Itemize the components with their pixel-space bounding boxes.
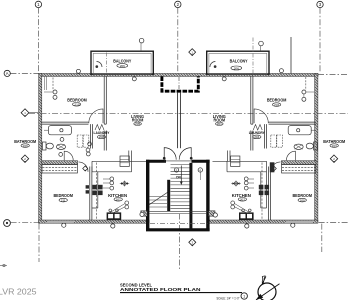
wall bedroom1 bottom (42, 122, 89, 124)
balcony right label (230, 58, 248, 70)
title text (120, 282, 201, 292)
keynote diamond hall right (271, 166, 276, 171)
fan symbol kitchen right (231, 181, 240, 187)
stove right (259, 185, 269, 195)
keynote circle stair left wall (140, 212, 144, 216)
bedroom2 left label (53, 193, 73, 202)
kitchen/bedroom2 wall right (268, 167, 270, 221)
svg-text:207: 207 (240, 198, 245, 202)
svg-text:200: 200 (300, 198, 305, 202)
dishwasher leader left (110, 201, 129, 214)
svg-text:204: 204 (254, 135, 259, 139)
closet box right (282, 165, 316, 174)
living room left label (131, 114, 144, 126)
closet dashed line bedroom1 right (305, 77, 307, 90)
sink right (294, 144, 303, 149)
svg-text:SCALE: 1/4" = 1'-0": SCALE: 1/4" = 1'-0" (217, 296, 240, 300)
balcony left label (113, 59, 131, 68)
bedroom2 right door arc (271, 162, 281, 172)
down arrow (180, 166, 183, 186)
outlet circles bedroom1 left wall (44, 90, 57, 99)
wall bathroom/laundry vertical (91, 124, 93, 148)
bedroom1 right door arc (254, 109, 268, 123)
stair break line diagonal (149, 191, 170, 205)
toilet left (42, 142, 53, 150)
svg-text:209: 209 (23, 144, 28, 148)
keynote circles below bottom wall right (245, 223, 295, 228)
wall bedroom1 right vertical left unit (104, 76, 106, 124)
keynote circles bathroom left (59, 138, 92, 157)
bedroom1 closet dashed line (52, 78, 54, 91)
exterior wall bottom right run (209, 220, 318, 223)
outlet circle top wall left unit (76, 69, 80, 73)
svg-text:DN: DN (176, 175, 181, 179)
linen dashed boxes right (271, 135, 283, 147)
svg-text:206: 206 (234, 66, 239, 70)
bedroom1 door arc (89, 109, 103, 123)
svg-text:BALCONY: BALCONY (113, 59, 131, 64)
kitchen left label (108, 193, 127, 202)
svg-text:202: 202 (274, 103, 279, 107)
svg-text:208: 208 (99, 135, 104, 139)
keynote diamond right bathroom (330, 155, 337, 163)
keynote circle above right balcony (259, 41, 264, 51)
fan symbol kitchen left (120, 181, 129, 187)
exterior wall right (315, 74, 318, 223)
left margin tick (0, 264, 7, 266)
bedroom2 left door arc (79, 162, 89, 172)
keynote circle stair right (198, 168, 202, 180)
window bottom wall left bedroom2 (47, 220, 74, 223)
svg-text:201: 201 (217, 122, 222, 126)
keynote circles below bottom wall left (62, 223, 115, 228)
stair lower landing dash-dot (150, 222, 208, 224)
bathroom left door arc (64, 151, 73, 160)
svg-text:206: 206 (120, 64, 125, 68)
svg-text:205: 205 (135, 122, 140, 126)
stove left (92, 185, 102, 195)
laundry left label (94, 130, 110, 139)
keynote diamond left bathroom (21, 155, 28, 163)
party wall double line (178, 93, 181, 149)
stair stringer left dark bar (167, 180, 170, 212)
grid line 2 vertical dash-dot (178, 8, 180, 270)
keynote circles kitchen right column (244, 177, 254, 190)
balcony left (91, 51, 153, 74)
wall bedroom1 right vertical (251, 76, 253, 124)
keynote diamond left on centerline (21, 109, 38, 117)
keynote circle stair left (174, 168, 178, 173)
wall bathroom/laundry vertical right unit (265, 124, 267, 148)
grid marker circle 3 (317, 1, 323, 7)
kitchen left counters (92, 151, 146, 220)
svg-text:LVR 2025: LVR 2025 (0, 287, 37, 296)
roof line above wall right (290, 37, 292, 74)
kitchen right label (232, 193, 251, 202)
svg-text:211: 211 (61, 198, 66, 202)
keynote circles kitchen left column (103, 177, 114, 190)
grid marker circle A (4, 70, 10, 76)
grid marker circle 1 (35, 1, 41, 7)
svg-text:1: 1 (243, 295, 245, 299)
bedroom2 right label (292, 193, 312, 202)
stair stringer right dark bar (189, 163, 192, 230)
balcony centerline dash right (252, 38, 254, 74)
grid marker circle 2 (175, 1, 181, 7)
wall laundry left vertical right unit (251, 131, 253, 151)
toilet right (306, 142, 317, 150)
closet box left (42, 165, 77, 174)
exterior wall left (39, 74, 42, 223)
sink left (56, 144, 65, 149)
centerline y113 dash-dot (29, 112, 348, 114)
outlet circle top wall right unit (279, 69, 283, 73)
exterior wall top (39, 74, 318, 77)
bathroom right label outside (323, 139, 346, 148)
wall jog left of stair (141, 211, 147, 216)
bifold doors laundry left (95, 125, 104, 131)
corner stud lines bedroom1 left (45, 76, 47, 90)
bedroom1 label (67, 97, 87, 106)
living room right label (213, 114, 226, 126)
chase block right kitchen (270, 162, 275, 172)
closet wall band left (42, 161, 78, 165)
entry vestibule bold dashed walls (162, 76, 198, 91)
exterior wall bottom left run (39, 220, 150, 223)
linen dashed boxes left (77, 135, 89, 147)
balcony centerline dash left (106, 53, 108, 74)
stair landing line (150, 210, 208, 212)
stair treads lower flight (150, 197, 168, 208)
north arrow (256, 276, 280, 300)
svg-text:210: 210 (74, 103, 79, 107)
sink unit left dark (107, 209, 122, 220)
outlet circles bedroom1 right wall (302, 90, 314, 101)
keynote diamond hall left (83, 166, 88, 171)
schedule tag box left of stair (120, 156, 129, 166)
svg-text:203: 203 (332, 144, 337, 148)
bedroom1 right label (267, 97, 287, 107)
schedule tag box right of stair (231, 156, 240, 166)
stair entry door arcs (163, 148, 192, 160)
svg-text:BEDROOM: BEDROOM (267, 97, 287, 102)
bathroom left label outside (14, 139, 37, 148)
stair treads upper flight (171, 165, 193, 209)
window bottom wall right bedroom2 (286, 220, 313, 223)
svg-text:A: A (6, 71, 9, 76)
keynote circle stair right wall (213, 213, 217, 217)
outlet circle below wall living right (222, 77, 226, 81)
balcony right (207, 51, 269, 74)
title underline (120, 292, 242, 294)
keynote diamond top center (189, 49, 196, 56)
panel squares on bedroom2 wall left (86, 185, 89, 193)
bathtub left (44, 126, 71, 135)
grid marker circle B-dot bottom left (4, 220, 348, 227)
dishwasher leader right (231, 201, 250, 214)
wall bedroom1 right bottom (269, 122, 316, 124)
laundry right label (249, 130, 265, 139)
bifold doors laundry right (253, 125, 262, 131)
closet wall band right (281, 161, 316, 165)
grid line A horizontal dash-dot (10, 73, 348, 76)
bathroom right door arc (286, 151, 295, 160)
svg-text:BALCONY: BALCONY (230, 58, 248, 63)
kitchen/bedroom2 wall left (90, 167, 92, 221)
kitchen right counters (213, 151, 267, 220)
grid line 1 vertical dash-dot (37, 8, 40, 262)
bathtub right (288, 126, 315, 135)
keynote diamond below stair (189, 239, 196, 246)
wall jog right of stair (209, 211, 215, 216)
balcony left door swing mark (96, 62, 102, 68)
scale circle tag (241, 293, 247, 299)
stairwell walls (146, 160, 210, 231)
svg-text:207: 207 (116, 198, 121, 202)
balcony right door swing mark (210, 62, 216, 68)
sink unit right dark (239, 209, 254, 220)
outlet circle below wall living left (132, 77, 136, 81)
svg-text:ANNOTATED FLOOR PLAN: ANNOTATED FLOOR PLAN (120, 287, 201, 292)
keynote circle above left balcony (139, 38, 144, 51)
wall laundry right vertical (104, 131, 106, 151)
svg-text:BEDROOM: BEDROOM (67, 97, 87, 102)
grid line 3 vertical dash-dot (320, 8, 322, 252)
